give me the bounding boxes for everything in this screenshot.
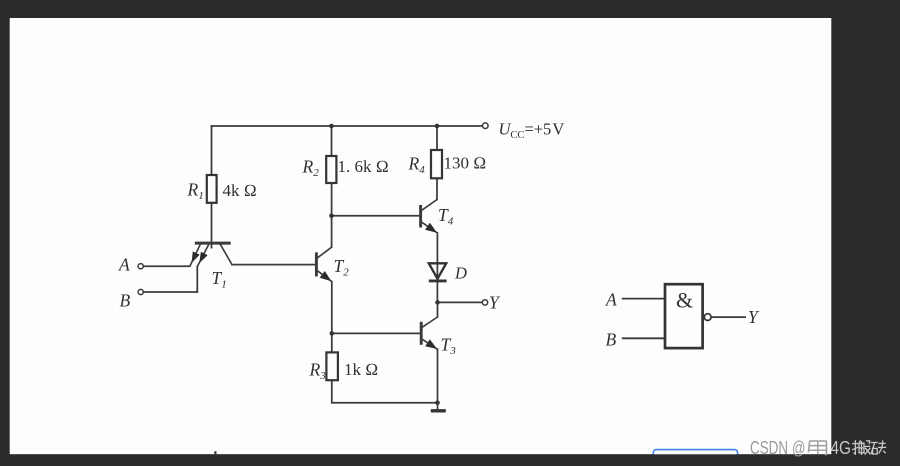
wire R2 bottom to T2 collector (331, 183, 333, 247)
wire R1 top (211, 126, 213, 175)
transistor T2 (316, 247, 331, 281)
junction node B2 (329, 213, 334, 218)
resistor R1 (207, 175, 217, 203)
diode D (429, 263, 447, 281)
svg-text:D: D (454, 264, 467, 283)
wire node B2 to T4 base (332, 215, 421, 217)
watermark (750, 437, 886, 458)
svg-text:4G: 4G (831, 437, 852, 458)
wire R4 bottom to T4 collector (436, 178, 438, 199)
svg-text:UCC=+5V: UCC=+5V (499, 120, 565, 142)
terminal A (138, 264, 143, 269)
svg-text:B: B (606, 330, 617, 350)
wire node Y to T3 collector (437, 302, 439, 317)
wire R2 top (331, 126, 333, 156)
gate U1 box (665, 284, 703, 348)
wire R3 bottom (331, 380, 333, 403)
gate input wire A (622, 298, 665, 300)
gate input wire B (622, 337, 665, 339)
wire node Y to terminal (438, 301, 482, 303)
resistor R2 (326, 156, 336, 183)
svg-text:&: & (676, 288, 693, 313)
wire input B vertical (196, 266, 198, 292)
wire T1 collector to T2 base (232, 264, 316, 266)
wire R4 top (436, 126, 438, 150)
svg-text:1k Ω: 1k Ω (344, 360, 378, 379)
wire input B horizontal (143, 291, 197, 293)
svg-text:A: A (605, 290, 617, 310)
gate output wire (711, 316, 746, 318)
ground (431, 403, 446, 411)
junction node top R4 (435, 124, 440, 129)
wire top supply rail (212, 125, 482, 127)
wire bottom rail (332, 402, 438, 404)
svg-text:A: A (118, 255, 130, 275)
resistor R3 (326, 352, 338, 380)
junction node E2 (330, 331, 335, 336)
transistor T3 (421, 317, 437, 349)
svg-text:B: B (120, 291, 131, 311)
svg-text:130 Ω: 130 Ω (444, 154, 487, 173)
wire T2 emitter down (331, 282, 333, 334)
player bottom bar (0, 454, 900, 466)
wire diode to node Y (436, 281, 438, 302)
wire node E2 to T3 base (332, 332, 421, 334)
wire R1 bottom to T1 base (211, 203, 213, 248)
transistor T1 (multi-emitter) (190, 243, 232, 267)
svg-text:1. 6k Ω: 1. 6k Ω (338, 157, 389, 176)
junction node top R2 (329, 124, 334, 129)
wire input A (143, 265, 190, 267)
junction node ground (435, 400, 440, 405)
progress marker box (653, 450, 737, 459)
terminal Y (482, 300, 487, 305)
svg-text:CSDN @: CSDN @ (750, 437, 806, 458)
wire R3 top (331, 333, 333, 352)
wire T3 emitter down (437, 349, 439, 402)
svg-text:4k Ω: 4k Ω (223, 181, 257, 200)
wire T4 emitter to diode (436, 233, 438, 281)
junction node Y (435, 300, 440, 305)
gate output bubble (704, 314, 711, 321)
terminal Ucc (483, 123, 489, 129)
transistor T4 (421, 200, 438, 234)
progress tick (214, 451, 216, 454)
terminal B (138, 289, 143, 294)
resistor R4 (431, 150, 442, 178)
